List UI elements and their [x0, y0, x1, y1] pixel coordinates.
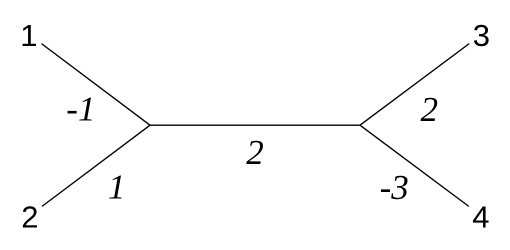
- svg-text:3: 3: [473, 18, 490, 53]
- wire: edge right node to leaf3: [360, 44, 469, 125]
- svg-text:-1: -1: [66, 89, 95, 128]
- wire: edge leaf1 to left node: [42, 44, 150, 125]
- svg-text:4: 4: [472, 199, 489, 234]
- svg-text:2: 2: [246, 133, 264, 172]
- svg-text:-3: -3: [380, 168, 409, 207]
- svg-text:2: 2: [421, 90, 439, 129]
- svg-text:1: 1: [108, 168, 126, 207]
- svg-text:2: 2: [21, 199, 38, 234]
- wire: edge right node to leaf4: [360, 125, 468, 206]
- svg-text:1: 1: [20, 18, 37, 53]
- wire: edge leaf2 to left node: [43, 125, 151, 206]
- wire: central edge between internal nodes: [150, 124, 360, 126]
